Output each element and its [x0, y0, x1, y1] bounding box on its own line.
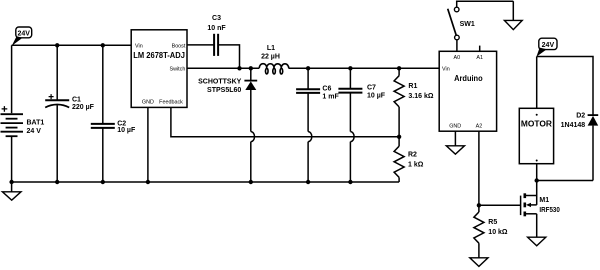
- wire gate: [479, 204, 521, 206]
- wire D2 bottom to drain node: [537, 180, 593, 182]
- node rail C2: [101, 180, 105, 184]
- battery BAT1: [1, 106, 45, 136]
- svg-text:SW1: SW1: [460, 21, 475, 28]
- wire flag to motor: [536, 57, 538, 109]
- svg-text:A2: A2: [476, 123, 483, 129]
- node drain: [535, 178, 539, 182]
- node top rail / C1: [55, 43, 59, 47]
- node C3 drop: [237, 66, 241, 70]
- node C7: [348, 66, 352, 70]
- resistor R2: [394, 137, 424, 182]
- ground (top right): [504, 1, 522, 29]
- svg-text:R2: R2: [408, 151, 417, 158]
- svg-text:C3: C3: [212, 15, 221, 22]
- wire ground rail: [12, 181, 400, 183]
- svg-text:SCHOTTSKY: SCHOTTSKY: [198, 79, 242, 86]
- svg-text:A1: A1: [476, 55, 483, 61]
- svg-text:Switch: Switch: [170, 66, 186, 72]
- wire motor bottom to drain node: [536, 164, 538, 181]
- ground (arduino GND): [446, 131, 464, 154]
- svg-text:L1: L1: [267, 45, 275, 52]
- svg-text:BAT1: BAT1: [27, 120, 45, 127]
- svg-text:1 mF: 1 mF: [322, 93, 339, 100]
- svg-text:M1: M1: [539, 197, 549, 204]
- svg-text:Vin: Vin: [135, 43, 143, 49]
- svg-text:C6: C6: [322, 86, 331, 93]
- wire boost to switch node: [218, 45, 239, 68]
- svg-text:1N4148: 1N4148: [561, 122, 586, 129]
- wire boost: [187, 44, 214, 46]
- inductor L1: [259, 45, 289, 74]
- wire left vertical (battery top): [11, 45, 13, 113]
- node R1 top: [397, 66, 401, 70]
- node rail battery: [9, 180, 13, 184]
- svg-text:R1: R1: [408, 83, 417, 90]
- svg-text:Feedback: Feedback: [159, 100, 183, 106]
- svg-text:LM 2678T-ADJ: LM 2678T-ADJ: [133, 51, 185, 60]
- wire A2 down: [478, 131, 480, 205]
- wire hop C7 over feedback: [350, 132, 354, 142]
- node rail C1: [55, 180, 59, 184]
- diode D1 schottky STPS5L60: [198, 68, 257, 131]
- svg-text:C1: C1: [72, 97, 81, 104]
- diode D2 1N4148: [561, 113, 599, 181]
- node schottky: [249, 66, 253, 70]
- wire hop C6 over feedback: [308, 132, 312, 142]
- motor M2: [519, 108, 553, 163]
- capacitor C3: [207, 15, 226, 56]
- transistor M1 IRF530: [521, 181, 560, 238]
- wire C6 to ground rail: [307, 142, 309, 182]
- node top rail / C2: [101, 43, 105, 47]
- svg-text:24V: 24V: [17, 30, 30, 37]
- capacitor C1: [45, 45, 94, 182]
- svg-text:10 µF: 10 µF: [117, 127, 136, 134]
- resistor R1: [394, 68, 434, 137]
- svg-text:24 V: 24 V: [27, 128, 42, 135]
- svg-text:D2: D2: [576, 113, 585, 120]
- wire switch node rail (left of L1): [187, 67, 259, 69]
- ground (R5): [470, 258, 488, 267]
- wire switch node rail (right of L1): [289, 67, 439, 69]
- capacitor C6: [296, 68, 339, 131]
- node GND pin / rail: [146, 180, 150, 184]
- svg-text:3.16 kΩ: 3.16 kΩ: [408, 93, 433, 100]
- ground (M1 source): [528, 237, 546, 246]
- wire top rail: [12, 44, 132, 46]
- node feedback / R1 / R2: [397, 135, 401, 139]
- wire schottky to ground rail: [250, 142, 252, 182]
- ground (bottom left): [2, 182, 21, 200]
- node rail C7: [348, 180, 352, 184]
- wire C7 to ground rail: [349, 142, 351, 182]
- svg-text:Arduino: Arduino: [454, 74, 483, 83]
- wire LM GND pin: [147, 107, 149, 182]
- svg-text:GND: GND: [449, 123, 461, 129]
- svg-text:R5: R5: [488, 219, 497, 226]
- capacitor C2: [91, 45, 136, 182]
- wire hop schottky over feedback: [251, 132, 255, 142]
- svg-text:1 kΩ: 1 kΩ: [408, 161, 424, 168]
- net flag 24V (left): [12, 27, 32, 46]
- svg-text:IRF530: IRF530: [539, 207, 560, 214]
- svg-text:MOTOR: MOTOR: [521, 120, 552, 129]
- svg-text:10 µF: 10 µF: [367, 93, 386, 100]
- svg-text:10 kΩ: 10 kΩ: [488, 229, 508, 236]
- IC U1 LM2678T-ADJ: [131, 30, 187, 108]
- IC U2 Arduino: [439, 51, 496, 131]
- capacitor C7: [338, 68, 385, 131]
- node C6: [306, 66, 310, 70]
- node rail C6: [306, 180, 310, 184]
- pin A1 stub: [479, 46, 481, 52]
- svg-text:STPS5L60: STPS5L60: [207, 87, 241, 94]
- wire feedback: [171, 107, 399, 136]
- wire battery bottom: [11, 136, 13, 182]
- node rail schottky: [249, 180, 253, 184]
- svg-text:10 nF: 10 nF: [207, 25, 226, 32]
- svg-text:C7: C7: [367, 85, 376, 92]
- svg-text:Boost: Boost: [172, 43, 186, 49]
- svg-text:GND: GND: [142, 100, 154, 106]
- net flag 24V (right): [536, 38, 557, 57]
- wire flag to D2 top: [537, 57, 593, 116]
- resistor R5: [474, 205, 508, 257]
- svg-text:220 µF: 220 µF: [72, 104, 95, 111]
- svg-text:Vin: Vin: [442, 66, 450, 72]
- switch SW1: [448, 1, 514, 51]
- node A2 / R5 / gate: [477, 203, 481, 207]
- svg-text:22 µH: 22 µH: [261, 54, 280, 61]
- svg-text:24V: 24V: [542, 42, 555, 49]
- svg-text:A0: A0: [454, 55, 461, 61]
